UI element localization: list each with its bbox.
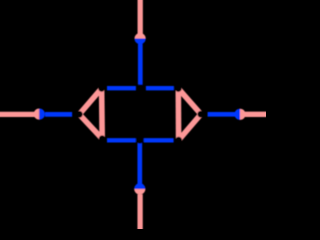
junction dot: left triangle top corner bbox=[98, 85, 105, 92]
wire: blue vertical top (node to rectangle) bbox=[138, 44, 143, 85]
left triangle (pink outline, apex pointing left) bbox=[79, 88, 101, 114]
junction dot: top edge midpoint bbox=[137, 85, 144, 92]
wire: bottom pink lead bbox=[137, 194, 142, 230]
junction dot: right triangle bottom corner bbox=[175, 137, 182, 144]
wire: right pink lead bbox=[245, 112, 267, 117]
node: top (half pink / half blue) bbox=[135, 33, 146, 44]
junction dot: bottom edge midpoint bbox=[136, 137, 143, 144]
wire: rectangle bottom edge, left segment bbox=[107, 138, 136, 142]
right triangle (pink outline, apex pointing right) bbox=[178, 89, 201, 115]
wire: rectangle bottom edge, right segment bbox=[144, 138, 174, 142]
node: bottom (half blue / half pink) bbox=[134, 183, 145, 194]
wire: blue right stub (right triangle apex to right node) bbox=[208, 112, 235, 117]
node: left (half pink / half blue) bbox=[34, 109, 45, 120]
junction dot: left triangle apex bbox=[76, 111, 83, 118]
wire: rectangle top edge, left segment bbox=[107, 86, 136, 90]
wire: blue left stub (left node to left triangle apex) bbox=[45, 112, 72, 117]
node: right (half blue / half pink) bbox=[234, 109, 245, 120]
wire: left pink lead bbox=[0, 112, 35, 117]
wire: blue vertical bottom (rectangle to node) bbox=[137, 143, 142, 184]
junction dot: right triangle apex bbox=[198, 111, 205, 118]
junction dot: left triangle bottom corner bbox=[99, 135, 106, 142]
wire: top pink lead bbox=[138, 0, 143, 34]
junction dot: right triangle top corner bbox=[175, 85, 182, 92]
wire: rectangle top edge, right segment bbox=[146, 86, 174, 90]
